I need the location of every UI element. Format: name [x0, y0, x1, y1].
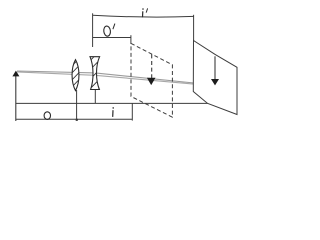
object arrowhead — [12, 71, 19, 77]
intermediate image arrow shaft (dashed) — [151, 54, 153, 78]
label i-prime — [142, 8, 147, 17]
i-prime right tick / screen edge extension — [193, 15, 195, 41]
dashed intermediate image plane parallelogram — [131, 43, 172, 117]
ray upper from object tip through lenses to screen image — [17, 71, 214, 85]
i-prime dimension line — [93, 15, 194, 17]
ray lower from object tip through lenses to screen image — [17, 72, 214, 86]
label i — [112, 107, 114, 117]
tick foot at lens L1 drop line — [76, 119, 78, 121]
O-prime dimension line — [93, 37, 131, 39]
lens L1 hatching — [70, 57, 82, 95]
lens L2 drop line — [94, 89, 96, 104]
i-prime left tick — [92, 13, 94, 47]
lens L2 biconcave — [90, 57, 100, 90]
lens L2 hatching — [87, 53, 103, 96]
label O — [44, 112, 50, 120]
image plane tick on dimension line — [131, 103, 133, 120]
bottom dimension line O i — [16, 118, 133, 120]
lens L1 biconvex — [72, 60, 79, 91]
intermediate image arrowhead — [147, 78, 156, 85]
screen image arrowhead — [211, 79, 219, 85]
O-prime right tick — [130, 35, 132, 44]
baseline axis line — [16, 102, 208, 104]
screen image arrow shaft — [214, 56, 216, 79]
lens L1 drop line — [76, 90, 78, 121]
label O-prime — [103, 24, 115, 37]
screen parallelogram — [193, 41, 237, 115]
object arrow shaft — [15, 73, 17, 121]
